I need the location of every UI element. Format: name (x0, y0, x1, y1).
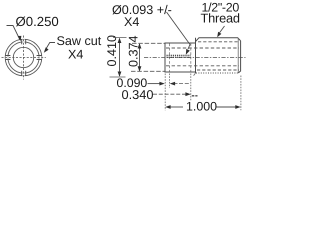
svg-text:0.410: 0.410 (105, 35, 119, 67)
saw cut notch east (36, 56, 42, 60)
axial hole hidden line bottom (166, 65, 239, 67)
end view middle circle dia 0.410 (8, 42, 39, 73)
end view vertical centerline (23, 36, 25, 80)
dim 0.374 line (139, 44, 141, 71)
dim 1.000 line left with arrow (170, 106, 184, 108)
svg-text:Thread: Thread (201, 11, 240, 26)
svg-text:Ø0.093 +/-: Ø0.093 +/- (112, 3, 172, 17)
end view inner circle dia 0.250 (13, 47, 33, 67)
svg-text:1.000: 1.000 (186, 100, 217, 114)
cross hole centerline 2 (190, 44, 192, 72)
svg-text:0.340: 0.340 (122, 87, 154, 102)
small cylinder outline (165, 43, 196, 72)
thread cylinder top edge with chamfers (196, 38, 241, 42)
svg-text:X4: X4 (124, 15, 139, 29)
cross hole centerline 1 (169, 44, 171, 72)
dim 0.340 extension line (190, 74, 192, 102)
dim 0.374 extension lines (132, 42, 165, 44)
dim 0.410 line (119, 39, 121, 77)
thread cylinder bottom edge dotted (196, 72, 238, 74)
saw cut notch north (22, 39, 26, 45)
svg-text:Saw cut: Saw cut (57, 34, 102, 48)
end view outer circle (5, 39, 42, 76)
thread chamfer vertical line (237, 38, 239, 73)
leader thread (219, 26, 225, 34)
dim 0.410 extension stubs (110, 38, 127, 77)
axial hole hidden line top (166, 47, 239, 49)
saw cut notch south (22, 71, 26, 77)
part centerline (144, 57, 246, 59)
svg-text:X4: X4 (68, 47, 83, 61)
dim 0.090 arrows (148, 83, 161, 85)
svg-text:0.374: 0.374 (127, 35, 141, 67)
thread minor dia dashed top (198, 41, 239, 43)
dim 0.340 leader and arrow (153, 93, 186, 95)
thread bottom left chamfer tick (194, 73, 196, 76)
end view horizontal centerline (2, 57, 46, 59)
thread cylinder right edge (238, 41, 240, 73)
leader dia 0.093 (167, 12, 191, 49)
thread minor dia dashed bottom (197, 69, 239, 71)
leader saw cut (45, 43, 55, 51)
saw cut notch west (5, 56, 11, 60)
dim 1.000 line right with arrow (217, 106, 237, 108)
dim 0.090 extension lines (165, 74, 169, 111)
svg-text:Ø0.250: Ø0.250 (16, 14, 59, 29)
cross holes hidden band (167, 55, 191, 57)
shoulder step (195, 38, 197, 73)
leader dia 0.250 (7, 26, 20, 40)
dim 1.000 right extension line (240, 76, 242, 111)
